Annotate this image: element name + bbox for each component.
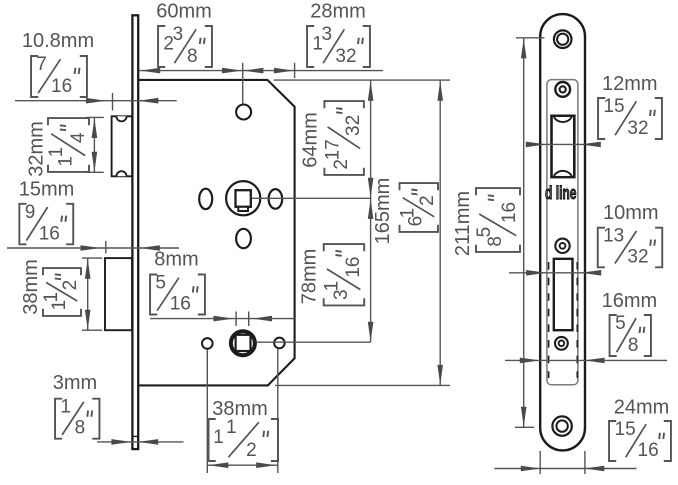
- svg-text:24mm: 24mm: [614, 397, 670, 419]
- svg-text:9: 9: [25, 202, 36, 223]
- svg-text:17: 17: [322, 139, 343, 160]
- svg-text:78mm: 78mm: [298, 249, 320, 305]
- svg-text:5: 5: [155, 273, 166, 294]
- svg-text:32: 32: [335, 46, 356, 67]
- svg-text:38mm: 38mm: [20, 259, 42, 315]
- svg-text:15: 15: [615, 419, 636, 440]
- svg-text:64mm: 64mm: [299, 112, 321, 168]
- svg-text:2: 2: [60, 280, 81, 291]
- svg-text:16: 16: [343, 257, 364, 278]
- svg-text:3: 3: [173, 24, 184, 45]
- svg-text:2: 2: [246, 440, 257, 461]
- svg-text:8: 8: [187, 46, 198, 67]
- svg-text:16: 16: [638, 440, 659, 461]
- svg-text:10mm: 10mm: [603, 202, 659, 224]
- svg-text:1: 1: [398, 208, 419, 219]
- svg-text:1: 1: [322, 281, 343, 292]
- svg-text:5: 5: [474, 227, 495, 238]
- svg-text:7: 7: [36, 54, 47, 75]
- svg-text:8: 8: [75, 418, 86, 439]
- svg-text:32: 32: [627, 118, 648, 139]
- svg-text:10.8mm: 10.8mm: [22, 30, 94, 52]
- svg-text:13: 13: [603, 226, 624, 247]
- svg-text:5: 5: [615, 313, 626, 334]
- svg-text:12mm: 12mm: [602, 73, 658, 95]
- svg-text:28mm: 28mm: [310, 0, 366, 22]
- svg-text:32: 32: [343, 115, 364, 136]
- svg-text:16mm: 16mm: [602, 290, 658, 312]
- svg-text:16: 16: [39, 223, 60, 244]
- svg-text:165mm: 165mm: [372, 178, 394, 245]
- svg-text:38mm: 38mm: [212, 398, 268, 420]
- svg-text:211mm: 211mm: [452, 191, 474, 256]
- svg-text:1: 1: [226, 417, 237, 438]
- svg-text:60mm: 60mm: [156, 0, 212, 22]
- svg-text:8: 8: [628, 335, 639, 356]
- svg-text:1: 1: [213, 427, 224, 448]
- svg-text:16: 16: [51, 76, 72, 97]
- svg-text:1: 1: [60, 397, 71, 418]
- svg-text:1: 1: [41, 292, 62, 303]
- svg-text:15mm: 15mm: [19, 178, 75, 200]
- svg-text:32: 32: [627, 246, 648, 267]
- svg-text:1: 1: [46, 147, 67, 158]
- svg-text:d line: d line: [545, 183, 577, 203]
- svg-text:16: 16: [499, 202, 520, 223]
- svg-text:3mm: 3mm: [53, 372, 97, 394]
- svg-text:8mm: 8mm: [154, 249, 198, 271]
- svg-text:3: 3: [322, 24, 333, 45]
- svg-text:15: 15: [603, 96, 624, 117]
- svg-text:2: 2: [417, 195, 438, 206]
- svg-text:4: 4: [68, 132, 89, 143]
- svg-text:16: 16: [170, 294, 191, 315]
- svg-text:32mm: 32mm: [25, 121, 47, 177]
